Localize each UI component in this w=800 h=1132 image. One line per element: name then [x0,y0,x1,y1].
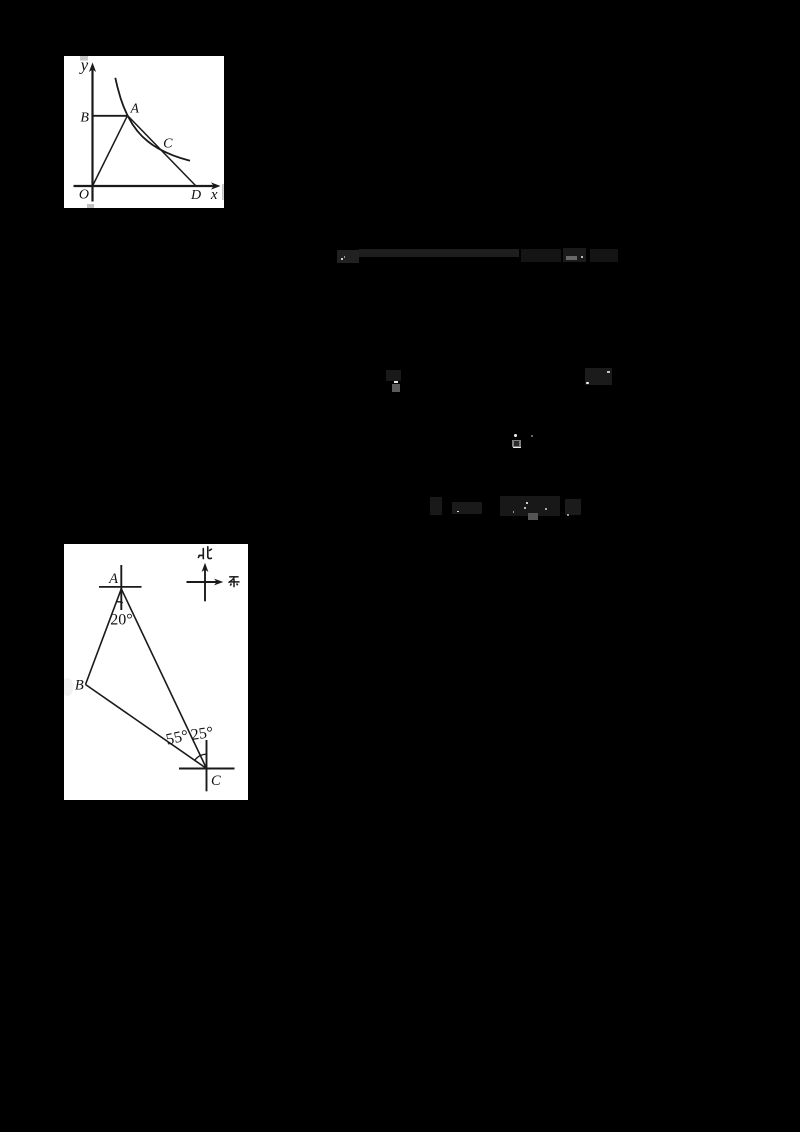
white speck pair in blob [341,258,343,260]
faint formula row 1: dark strip [359,249,519,257]
svg-text:A: A [108,571,118,587]
left edge gray smudge near B [62,678,74,696]
y-axis [91,67,93,202]
svg-text:20°: 20° [110,612,132,629]
y-axis arrowhead [89,63,96,73]
north tick cross at A: horizontal [99,586,142,588]
specks [524,507,526,509]
white dash [607,371,610,373]
white bar under block [513,447,521,449]
x-axis [74,185,216,187]
top edge gray smudge [80,56,88,61]
svg-text:A: A [130,101,140,116]
glyph dong (east) [229,577,240,587]
x-axis arrowhead [211,182,221,189]
svg-text:y: y [79,56,89,74]
gray block numerator [512,440,521,447]
tick cross at C: horizontal [179,768,235,770]
svg-text:O: O [79,188,89,203]
angle arcs at C [195,756,201,761]
gray block in row [528,513,538,520]
horizontal segment B to A [93,115,128,117]
figure 2 panel [64,544,248,800]
white dash in row [457,511,460,513]
compass vertical (north) [204,568,206,601]
figure 1 panel [64,56,224,208]
side A to C [121,589,206,769]
glyph bei (north) [198,547,211,559]
svg-text:C: C [211,773,221,789]
equals dash [566,256,577,261]
svg-text:B: B [80,111,89,126]
svg-text:D: D [190,188,201,203]
faint fraction left: numerator marks [386,370,401,381]
right edge gray strip [222,184,223,200]
bottom edge gray smudge [87,204,94,208]
svg-text:C: C [163,137,173,152]
faint blob "4" left of strip [337,250,359,263]
dark mark inside block [514,441,519,446]
compass east arrowhead [214,579,223,586]
hyperbola curve through A and C [115,78,190,161]
svg-text:x: x [210,187,218,203]
fraction denominator gray block [392,384,400,392]
svg-text:25°: 25° [190,724,215,744]
side B to C [86,685,207,769]
chord O to A [93,116,128,187]
side A to B [86,589,122,685]
fraction bar white [394,381,399,383]
faint bottom formula row [430,497,442,515]
faint fraction right: marks [585,368,612,385]
secant line A to D [128,116,197,187]
north line at C: vertical [206,740,208,791]
compass north arrowhead [202,563,209,572]
faint middle fraction: white dot [514,434,516,436]
svg-text:B: B [75,678,84,694]
second dot [531,435,533,437]
north line at A: vertical [120,565,122,610]
speck [581,256,583,258]
faint formula glyphs right [521,249,561,262]
white dot [586,382,589,385]
angle arc at A (20 deg) [116,601,123,604]
svg-text:55°: 55° [164,727,189,748]
compass horizontal (east) [187,581,219,583]
